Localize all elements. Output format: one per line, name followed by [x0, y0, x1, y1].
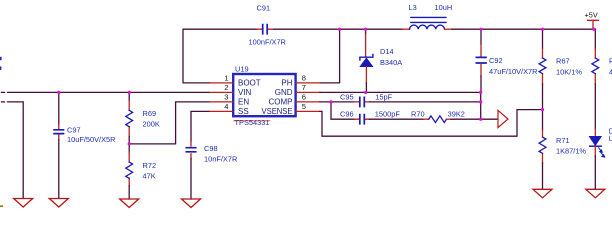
svg-text:1: 1: [224, 73, 228, 82]
pin stubs: [210, 83, 320, 112]
wire C98 lower: [190, 159, 192, 200]
junction +5V rail / R67: [541, 28, 544, 31]
svg-text:SS: SS: [238, 107, 249, 116]
svg-text:EN: EN: [238, 98, 249, 107]
svg-text:B340A: B340A: [380, 58, 402, 67]
wire lower input rail to ground: [8, 102, 24, 198]
svg-text:R70: R70: [411, 110, 425, 119]
wire COMP lower branch: [331, 102, 355, 119]
net arrow: [498, 110, 508, 127]
capacitor C97: [58, 125, 60, 140]
svg-text:U19: U19: [235, 65, 249, 74]
svg-text:8: 8: [302, 73, 306, 82]
svg-text:3: 3: [224, 92, 228, 101]
svg-text:TPS54331: TPS54331: [235, 118, 270, 127]
junction PH node / D14: [364, 28, 367, 31]
wire BOOT loop: [183, 29, 257, 83]
svg-text:2: 2: [224, 83, 228, 92]
svg-text:GND: GND: [275, 88, 293, 97]
wire C91 to PH node: [274, 28, 340, 30]
power +5V: [588, 20, 599, 29]
svg-text:VSENSE: VSENSE: [262, 107, 293, 116]
wire PH drop: [320, 29, 340, 83]
marker fragment bottom left: [0, 205, 3, 207]
svg-text:COMP: COMP: [269, 98, 293, 107]
svg-text:R69: R69: [143, 109, 157, 118]
IC U19 box: [233, 74, 295, 116]
svg-text:R67: R67: [556, 56, 570, 65]
junction VIN rail / R69: [128, 91, 131, 94]
ground G5: [533, 189, 552, 198]
svg-text:+5V: +5V: [585, 11, 598, 20]
wire R72 lower: [128, 186, 130, 199]
svg-text:D14: D14: [380, 47, 394, 56]
wire rail PH to D14 to L3: [340, 28, 403, 30]
svg-text:15pF: 15pF: [375, 93, 392, 102]
wire R69 to junction: [128, 137, 130, 144]
wire output rail: [452, 28, 595, 30]
wire EN net: [129, 102, 210, 144]
wire comp bus vertical: [480, 92, 482, 119]
wire VSENSE net: [320, 110, 543, 137]
junction EN node R69/R72: [128, 142, 131, 145]
inductor L3: [403, 28, 410, 30]
wire VIN rail stub dash: [2, 91, 5, 93]
svg-text:1500pF: 1500pF: [375, 109, 401, 118]
svg-text:C95: C95: [340, 93, 354, 102]
net fragment left edge top: [0, 57, 2, 60]
junction VSENSE / R67 R71 divider: [541, 108, 544, 111]
junction GND net / D14 anode: [364, 91, 367, 94]
capacitor C96: [355, 118, 370, 120]
svg-text:C91: C91: [257, 3, 271, 12]
LED arrows: [599, 148, 605, 157]
strike line over type label: [234, 120, 270, 122]
svg-text:PH: PH: [281, 79, 292, 88]
wire to net arrow: [481, 118, 498, 120]
wire SS net: [191, 111, 210, 141]
svg-text:1K87/1%: 1K87/1%: [556, 147, 586, 156]
resistor R70: [424, 118, 429, 120]
wire C97 lower: [58, 140, 60, 199]
junction +5V rail / R68: [592, 28, 595, 31]
svg-text:10nF/X7R: 10nF/X7R: [204, 154, 237, 163]
resistor R69: [128, 101, 130, 137]
junction GND net / bus: [479, 91, 482, 94]
junction COMP net / bus: [479, 100, 482, 103]
junction PH node / BOOT cap: [338, 28, 341, 31]
svg-text:R71: R71: [556, 136, 570, 145]
svg-text:4: 4: [224, 102, 228, 111]
svg-text:47K: 47K: [143, 172, 156, 181]
resistor R67: [542, 29, 544, 48]
svg-text:C96: C96: [340, 109, 354, 118]
svg-text:BOOT: BOOT: [238, 79, 261, 88]
capacitor C98: [190, 141, 192, 159]
junction bus / arrow line: [479, 118, 482, 121]
wire VIN rail: [8, 91, 211, 93]
diode D14: [365, 29, 367, 34]
svg-text:C98: C98: [204, 144, 218, 153]
ground G3: [120, 199, 139, 208]
svg-text:VIN: VIN: [238, 88, 252, 97]
svg-text:200K: 200K: [143, 119, 160, 128]
svg-text:39K2: 39K2: [448, 110, 465, 119]
capacitor C95: [355, 101, 370, 103]
svg-text:L3: L3: [409, 3, 417, 12]
wire C97 upper: [58, 92, 60, 124]
wire R69 upper: [128, 92, 130, 100]
wire COMP net: [320, 101, 355, 103]
ground G6: [586, 189, 605, 198]
ground G4: [182, 199, 201, 208]
capacitor C92: [480, 29, 482, 44]
svg-text:C92: C92: [489, 56, 503, 65]
svg-text:R72: R72: [143, 161, 157, 170]
svg-text:47uF/10V/X7R: 47uF/10V/X7R: [489, 67, 537, 76]
svg-text:5: 5: [302, 102, 306, 111]
LED D15: [594, 129, 596, 137]
wire R72 upper: [128, 144, 130, 152]
svg-text:C97: C97: [67, 125, 81, 134]
svg-text:10K/1%: 10K/1%: [556, 67, 582, 76]
svg-text:10uF/50V/X5R: 10uF/50V/X5R: [67, 135, 115, 144]
ground G2: [49, 199, 68, 208]
junction COMP / C96 branch: [329, 100, 332, 103]
junction +5V rail / C92: [479, 28, 482, 31]
svg-text:10uH: 10uH: [435, 3, 453, 12]
wire lower input rail dash: [2, 101, 5, 103]
resistor R68: [594, 29, 596, 48]
resistor R72: [128, 152, 130, 186]
net fragment left edge lower: [0, 66, 1, 70]
wire GND net: [320, 91, 481, 93]
capacitor C91: [257, 28, 275, 30]
svg-text:7: 7: [302, 83, 306, 92]
svg-text:100nF/X7R: 100nF/X7R: [249, 37, 286, 46]
svg-text:6: 6: [302, 92, 306, 101]
ground G1: [14, 199, 33, 208]
resistor R71: [542, 110, 544, 130]
junction VIN rail / C97: [57, 91, 60, 94]
